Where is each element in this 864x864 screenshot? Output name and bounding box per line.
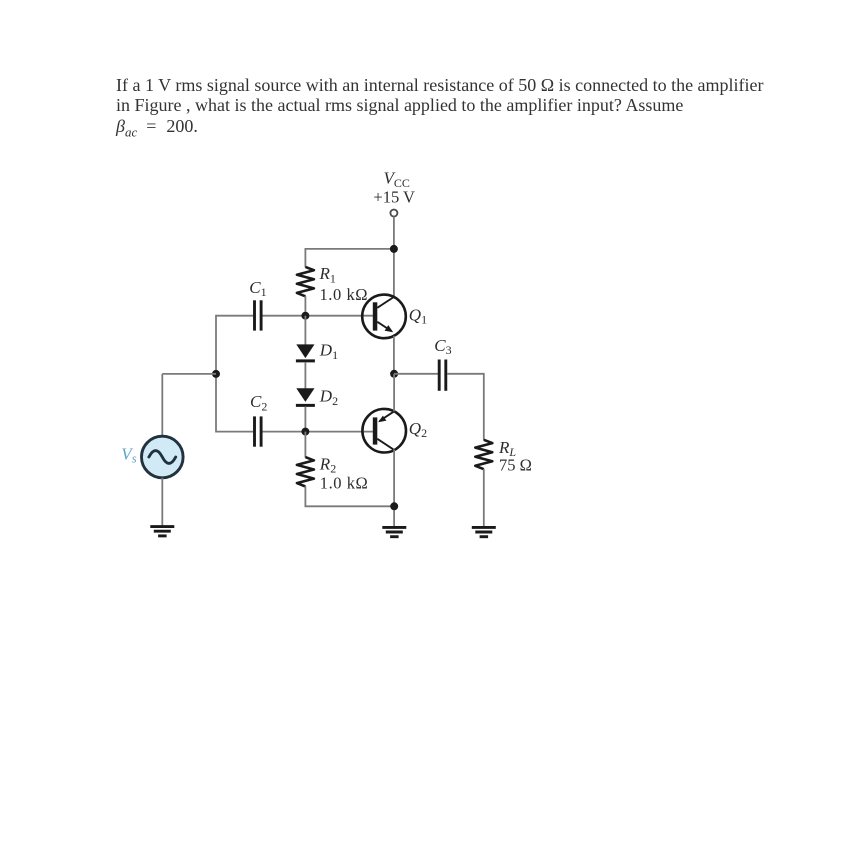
node mid junction [390, 370, 398, 378]
wire R2 bottom stub and corner to bottom junction [305, 486, 394, 506]
svg-text:C2: C2 [250, 392, 267, 413]
wire input row upper right segment [262, 315, 373, 317]
wire mid junction to Q2 emitter [393, 374, 395, 412]
svg-text:R1: R1 [319, 264, 336, 285]
source Vs [142, 436, 184, 478]
wire top junction to Q1 collector [393, 249, 395, 297]
capacitor C2 [255, 416, 262, 446]
svg-text:+15 V: +15 V [373, 187, 415, 206]
wire source horizontal [162, 373, 216, 375]
transistor Q2 [362, 409, 406, 453]
wire VCC terminal to top junction [393, 217, 395, 249]
wire R2 top stub [304, 432, 306, 458]
node top junction [390, 245, 398, 253]
ground for source [150, 527, 174, 536]
capacitor C3 [439, 360, 446, 391]
capacitor C1 [255, 300, 262, 330]
node source junction [212, 370, 220, 378]
svg-text:C3: C3 [434, 336, 451, 357]
svg-text:R2: R2 [319, 454, 336, 475]
ground center [382, 527, 406, 536]
diode D2 [296, 388, 315, 405]
svg-text:1.0 kΩ: 1.0 kΩ [320, 285, 369, 304]
svg-text:Q1: Q1 [409, 305, 427, 326]
wire input row lower right segment [262, 431, 373, 433]
svg-text:1.0 kΩ: 1.0 kΩ [320, 474, 369, 493]
diode D1 [296, 344, 315, 361]
wire R1 top stub [304, 249, 306, 267]
resistor RL [475, 440, 492, 469]
wire Q2 collector to bottom junction and ground [393, 450, 395, 527]
wire D2 to base row 2 junction [304, 407, 306, 432]
svg-text:75 Ω: 75 Ω [499, 455, 532, 474]
svg-text:Q2: Q2 [409, 419, 427, 440]
transistor Q1 [362, 295, 406, 339]
VCC terminal [390, 210, 397, 217]
wire top horizontal [305, 248, 394, 250]
svg-text:Vs: Vs [121, 444, 136, 465]
wire RL bottom stub [483, 469, 485, 526]
node base row 1 junction [301, 312, 309, 320]
node bottom junction [390, 502, 398, 510]
wire left bus vertical [215, 315, 217, 433]
wire C3 to right corner [447, 374, 484, 440]
node base row 2 junction [301, 428, 309, 436]
wire mid junction to C3 [394, 373, 438, 375]
svg-text:C1: C1 [249, 278, 266, 299]
svg-text:D1: D1 [319, 341, 338, 362]
wire D1 to D2 [304, 362, 306, 389]
wire junction to D1 [304, 316, 306, 345]
wire input row upper left segment [216, 315, 253, 317]
wire R1 bottom stub [304, 296, 306, 316]
resistor R2 [297, 457, 314, 486]
wire input row lower left segment [216, 431, 253, 433]
resistor R1 [297, 267, 314, 296]
wire Q1 emitter to mid junction [393, 336, 395, 374]
net VCC label [373, 169, 415, 207]
wire source top vertical [161, 374, 163, 437]
wire source bottom vertical [161, 478, 163, 526]
ground for RL [472, 527, 496, 536]
svg-text:D2: D2 [319, 387, 338, 408]
